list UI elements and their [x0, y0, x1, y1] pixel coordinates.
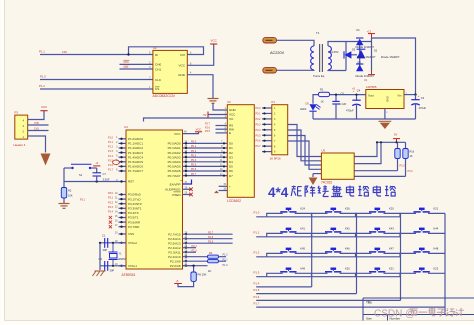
- LCD pin 15 backlight: [219, 185, 228, 187]
- MCU pin 1 P1.0/ADC0: [119, 138, 127, 140]
- svg-text:P0.1: P0.1: [191, 145, 197, 148]
- key K43 row2 col3: [356, 233, 372, 236]
- svg-text:P1.3: P1.3: [254, 270, 260, 274]
- capacitor C3 electrolytic: [415, 95, 417, 100]
- svg-text:ALE/PROG: ALE/PROG: [165, 188, 181, 192]
- MCU pin 3 P1.2/ADC2: [119, 147, 127, 149]
- svg-text:GND: GND: [178, 73, 186, 77]
- P1 resnet pin 5: [262, 129, 272, 131]
- svg-text:1K: 1K: [410, 155, 413, 158]
- wire bridge right branch: [371, 38, 373, 71]
- wire ADC CH1 stub: [120, 68, 153, 70]
- svg-text:P2.2/A10: P2.2/A10: [168, 255, 181, 259]
- svg-text:Title: Title: [366, 301, 372, 305]
- svg-text:P1.1: P1.1: [39, 49, 45, 53]
- svg-text:VCC: VCC: [211, 39, 218, 43]
- key K24 row1 col1: [267, 213, 283, 216]
- svg-text:P0.6/AD6: P0.6/AD6: [168, 169, 181, 173]
- svg-text:P2.6: P2.6: [208, 236, 214, 239]
- svg-text:R2: R2: [68, 188, 72, 192]
- svg-text:P0.4/AD4: P0.4/AD4: [168, 160, 181, 164]
- svg-text:D6: D6: [229, 169, 233, 173]
- MCU pin 4 P1.3/ADC3: [119, 152, 127, 154]
- svg-text:U3: U3: [227, 100, 231, 104]
- svg-text:XTAL1: XTAL1: [128, 264, 137, 268]
- svg-text:K26: K26: [345, 207, 350, 211]
- svg-text:P1.0: P1.0: [108, 136, 114, 139]
- keypad column wire 3: [400, 213, 402, 300]
- svg-text:RST: RST: [128, 180, 134, 184]
- svg-text:P2.5: P2.5: [208, 240, 214, 243]
- key K47 row3 col3: [356, 253, 372, 256]
- svg-text:T1: T1: [316, 31, 320, 35]
- MCU pin 16 P3.6/WR: [119, 221, 127, 223]
- wire P0.0 bus MCU to LCD: [183, 142, 228, 144]
- wire encoder out A: [354, 142, 377, 156]
- svg-text:K49: K49: [300, 266, 305, 270]
- resistor R17: [405, 142, 407, 148]
- sheet border: [4, 0, 6, 321]
- svg-text:P2.5/A13: P2.5/A13: [168, 241, 181, 245]
- wire AC neutral to transformer: [277, 69, 315, 71]
- regulator U1 LM7805 body: [366, 90, 404, 109]
- MCU pin 10 P3.0/RxD: [119, 194, 127, 196]
- svg-text:P3.2: P3.2: [108, 201, 114, 204]
- wire +5 rail from regulator: [330, 94, 366, 96]
- svg-text:P0.1/AD1: P0.1/AD1: [168, 146, 181, 150]
- svg-text:P2.3/A11: P2.3/A11: [168, 250, 180, 254]
- MCU pin 5 P1.4/ADC4: [119, 156, 127, 158]
- svg-text:E: E: [229, 131, 231, 135]
- keypad row wire P1.3: [256, 276, 400, 278]
- wire keypad bundle 2: [288, 130, 322, 161]
- LCD U3 chip body: [227, 105, 254, 198]
- svg-text:P1.2: P1.2: [254, 250, 260, 254]
- keypad column return wire P1.5: [256, 293, 356, 295]
- svg-text:P2.7/A15: P2.7/A15: [168, 232, 181, 236]
- wire P2.0 to resistor R6: [183, 266, 194, 272]
- svg-text:P3.2: P3.2: [400, 164, 406, 167]
- svg-text:D2: D2: [229, 151, 233, 155]
- 5V power symbol at LCD: [207, 112, 209, 118]
- svg-text:U5: U5: [322, 148, 326, 152]
- svg-text:1K: 1K: [208, 269, 212, 273]
- key K46 row3 col2: [312, 253, 328, 256]
- svg-text:P3.7/RD: P3.7/RD: [128, 225, 140, 229]
- svg-text:P2.6: P2.6: [205, 126, 211, 129]
- svg-text:K42: K42: [345, 227, 350, 231]
- svg-text:K21: K21: [389, 266, 394, 270]
- wire P3 pin3: [28, 124, 49, 126]
- MCU pin 12 P3.2/INT0: [119, 203, 127, 205]
- svg-text:K20: K20: [389, 207, 394, 211]
- svg-text:GND: GND: [229, 108, 237, 112]
- +5 power symbol at reset: [93, 165, 100, 167]
- svg-text:P0.6: P0.6: [191, 168, 197, 171]
- key K21 row1 col4: [400, 213, 416, 216]
- wire P0.7 bus MCU to LCD: [183, 175, 228, 177]
- wire regulator GND down: [384, 109, 386, 120]
- VCC power symbol at P3: [40, 110, 47, 112]
- wire R1 to LED: [313, 95, 319, 104]
- svg-text:P2.4/A12: P2.4/A12: [168, 246, 181, 250]
- svg-text:10K: 10K: [68, 193, 73, 197]
- svg-text:P0.5: P0.5: [256, 134, 262, 137]
- key K20 row4 col2: [312, 273, 328, 276]
- MCU pin 11 P3.1/TxD: [119, 198, 127, 200]
- svg-text:CS0: CS0: [62, 51, 67, 54]
- svg-text:P3.1: P3.1: [108, 197, 114, 200]
- wire keypad bundle 4: [288, 141, 322, 169]
- LCD pin 2 VCC wire to 5V: [208, 114, 227, 116]
- wire P3 pin2: [28, 130, 49, 132]
- svg-text:C7: C7: [103, 172, 107, 176]
- wire P0.1 bus MCU to LCD: [183, 147, 228, 149]
- svg-text:P3.5/T1: P3.5/T1: [128, 216, 139, 220]
- wire P0.5 bus MCU to LCD: [183, 165, 228, 167]
- svg-text:1K: 1K: [321, 100, 324, 104]
- P1 resnet pin 2: [262, 112, 272, 114]
- no-ERC cross at MCU left pin: [109, 216, 112, 219]
- wire DO feedback loop: [129, 47, 204, 55]
- wire encoder out B: [354, 142, 381, 163]
- wire RST to reset network: [64, 181, 119, 183]
- +12 power symbol: [368, 33, 375, 35]
- svg-text:P3.4: P3.4: [108, 211, 114, 214]
- svg-text:P0.3: P0.3: [191, 154, 197, 157]
- svg-text:Trans Eq: Trans Eq: [313, 74, 325, 78]
- svg-text:LED0: LED0: [300, 108, 307, 111]
- wire XTAL1: [100, 265, 126, 267]
- svg-text:P0.4: P0.4: [256, 129, 262, 132]
- svg-text:CH0: CH0: [34, 122, 39, 125]
- ground arrow below P3: [41, 154, 51, 166]
- svg-text:AT89S51: AT89S51: [122, 273, 136, 277]
- watermark CSDN: [374, 308, 464, 320]
- svg-text:LM7805: LM7805: [366, 85, 377, 89]
- svg-text:S1: S1: [79, 173, 83, 177]
- svg-text:30P: 30P: [103, 248, 108, 252]
- MCU pin 20 VSS: [119, 233, 127, 235]
- svg-text:K41: K41: [300, 227, 305, 231]
- LCD pin 5 RW: [216, 128, 228, 130]
- MCU U4 chip body: [126, 130, 183, 269]
- svg-text:P1.3/ADC3: P1.3/ADC3: [128, 151, 143, 155]
- svg-text:D4: D4: [229, 160, 233, 164]
- svg-text:P2.7: P2.7: [205, 123, 211, 126]
- MCU pin 18 XTAL2: [119, 242, 127, 244]
- wire bridge middle branch: [359, 42, 361, 71]
- svg-text:P3.3/INT1: P3.3/INT1: [128, 207, 142, 211]
- svg-text:P0.2: P0.2: [191, 150, 197, 153]
- svg-text:U4: U4: [124, 125, 128, 129]
- P1 resnet pin 9: [262, 151, 272, 153]
- svg-text:K48: K48: [434, 247, 439, 251]
- svg-text:VCC: VCC: [196, 127, 202, 131]
- capacitor C9: [104, 261, 106, 271]
- wire P3 pin1 to ground arrow: [28, 136, 46, 153]
- MCU pin 15 P3.5/T1: [119, 217, 127, 219]
- svg-text:CS: CS: [155, 87, 159, 91]
- wire P0.2 bus MCU to LCD: [183, 152, 228, 154]
- svg-text:PSEN: PSEN: [172, 193, 180, 197]
- svg-text:CLK: CLK: [155, 78, 162, 82]
- svg-text:P0.0: P0.0: [256, 107, 262, 110]
- encoder U5 74C922 body: [321, 153, 354, 179]
- svg-text:P1.7/ADC7: P1.7/ADC7: [128, 169, 143, 173]
- svg-text:AC15V: AC15V: [330, 50, 339, 54]
- svg-text:C1: C1: [102, 233, 106, 237]
- wire encoder out D: [354, 175, 405, 177]
- power bar below bridge: [368, 74, 375, 76]
- svg-text:R16: R16: [410, 150, 415, 153]
- LCD pin 4 RS: [216, 125, 228, 127]
- svg-text:P0.7: P0.7: [256, 145, 262, 148]
- no-ERC cross at MCU left pin: [109, 221, 112, 224]
- key K42 row2 col2: [312, 233, 328, 236]
- svg-text:P3.0: P3.0: [108, 192, 114, 195]
- svg-text:AC220V: AC220V: [270, 51, 285, 55]
- resistor R1: [319, 92, 330, 96]
- wire ADC GND down to ground: [187, 75, 213, 99]
- svg-text:CH1: CH1: [155, 67, 161, 71]
- key K26 row1 col2: [312, 213, 328, 216]
- svg-text:CH0: CH0: [155, 63, 161, 67]
- svg-text:P3.0/RxD: P3.0/RxD: [128, 193, 142, 197]
- wire transformer secondary bottom: [328, 69, 346, 72]
- power bar symbol at R6 return: [174, 283, 182, 285]
- svg-text:P0.5: P0.5: [191, 164, 197, 167]
- key K49 row4 col1: [267, 273, 283, 276]
- svg-text:P3.3: P3.3: [108, 206, 114, 209]
- svg-text:Vin: Vin: [397, 93, 402, 97]
- svg-text:P0.3/AD3: P0.3/AD3: [168, 155, 181, 159]
- wire net P1.1 to ADC DI: [40, 54, 153, 56]
- svg-text:P1.3: P1.3: [108, 150, 114, 153]
- svg-text:R1: R1: [320, 88, 324, 92]
- svg-text:P2.7: P2.7: [208, 231, 214, 234]
- svg-text:470uF: 470uF: [419, 106, 427, 110]
- wire P0.3 bus MCU to LCD: [183, 156, 228, 158]
- svg-text:VCC: VCC: [178, 64, 185, 68]
- wire R6 to supply arrow: [178, 281, 194, 286]
- key K45 row3 col1: [267, 253, 283, 256]
- LED D9: [309, 104, 316, 110]
- keypad row wire P1.0: [256, 216, 400, 218]
- wire encoder pin5 to ground arrow: [313, 173, 321, 175]
- wire keypad bundle 1: [288, 125, 322, 157]
- ADC U2 chip body: [153, 50, 187, 93]
- header P3 connector body: [15, 115, 28, 139]
- keypad column wire 2: [356, 213, 358, 293]
- svg-text:D1: D1: [229, 146, 233, 150]
- VCC power symbol above MCU: [195, 131, 202, 133]
- svg-text:P0.2/AD2: P0.2/AD2: [168, 151, 181, 155]
- svg-text:EA/VPP: EA/VPP: [170, 182, 181, 186]
- wire top rail to Vin column: [372, 38, 416, 95]
- svg-text:P3.2/INT0: P3.2/INT0: [128, 202, 142, 206]
- svg-text:D7: D7: [229, 174, 233, 178]
- svg-text:P2.4: P2.4: [192, 245, 198, 248]
- resistor network P1 body: [272, 105, 288, 155]
- svg-text:CH0: CH0: [124, 61, 130, 64]
- svg-text:CSDN @: CSDN @: [374, 309, 415, 320]
- svg-text:P3.6/WR: P3.6/WR: [128, 220, 141, 224]
- svg-text:P1.4: P1.4: [108, 155, 114, 158]
- svg-text:0.1UF: 0.1UF: [339, 102, 347, 106]
- ground symbol near LCD: [208, 98, 219, 100]
- svg-text:P1.7: P1.7: [108, 169, 114, 172]
- wire crystal caps to ground: [99, 243, 101, 266]
- no-ERC cross on PSEN: [189, 193, 193, 197]
- P1 resnet pin 7: [262, 140, 272, 142]
- wire regulator Vin: [404, 94, 416, 96]
- svg-text:4*4: 4*4: [268, 185, 289, 200]
- wire ADC VCC to VCC rail: [187, 44, 213, 65]
- svg-text:+12: +12: [367, 29, 372, 33]
- capacitor C4 electrolytic: [356, 95, 358, 101]
- svg-text:K43: K43: [389, 227, 394, 231]
- svg-text:P1.6: P1.6: [254, 295, 260, 299]
- svg-text:P2.1: P2.1: [223, 258, 229, 261]
- svg-text:VO: VO: [229, 117, 234, 121]
- wire P3 pin4 to VCC: [28, 111, 44, 120]
- svg-text:P1.7: P1.7: [254, 302, 260, 306]
- resistor R16: [397, 142, 399, 148]
- LCD pin 3 VO wire: [144, 118, 228, 122]
- title block frame: [363, 297, 474, 299]
- svg-text:P1.0: P1.0: [254, 210, 260, 214]
- ground symbol below regulator: [379, 120, 392, 122]
- svg-text:P2.0/A8: P2.0/A8: [170, 264, 181, 268]
- AC input terminal bottom: [263, 68, 277, 73]
- MCU pin 19 XTAL1: [119, 265, 127, 267]
- svg-text:D3: D3: [229, 155, 233, 159]
- svg-text:+: +: [418, 94, 420, 98]
- svg-text:470uF: 470uF: [346, 108, 354, 112]
- svg-text:DO: DO: [180, 53, 185, 57]
- resistor R4b on P2.1 wire: [208, 260, 219, 263]
- svg-text:P3: P3: [15, 110, 19, 114]
- keypad column return wire P1.4: [256, 286, 312, 288]
- svg-text:LCD1602: LCD1602: [227, 199, 241, 203]
- wire bridge middle horizontal: [346, 54, 357, 56]
- svg-text:-: -: [229, 189, 230, 193]
- svg-text:P1.6/ADC6: P1.6/ADC6: [128, 165, 143, 169]
- svg-text:CH1: CH1: [34, 128, 39, 131]
- AC input terminal top: [263, 38, 277, 43]
- key K20 row1 col3: [356, 213, 372, 216]
- svg-text:Size: Size: [366, 316, 372, 320]
- svg-text:VCC: VCC: [174, 132, 181, 136]
- wire LED to bottom rail: [312, 111, 314, 119]
- svg-text:VCC: VCC: [41, 105, 47, 109]
- wire transformer secondary top: [328, 42, 372, 47]
- wire AC live to transformer: [277, 40, 315, 46]
- switch S1: [64, 167, 73, 169]
- ground below R2: [59, 203, 70, 205]
- svg-text:R4: R4: [209, 251, 213, 255]
- svg-text:VSS: VSS: [128, 232, 134, 236]
- svg-text:P3.3: P3.3: [408, 170, 414, 173]
- no-ERC cross at MCU left pin: [109, 225, 112, 228]
- svg-text:DI: DI: [155, 53, 158, 57]
- resistor R2: [63, 182, 65, 188]
- keypad column return wire P1.7: [256, 306, 445, 308]
- wire ADC CH0 stub: [120, 63, 153, 65]
- wire net P1.2 to ADC CS: [40, 88, 153, 90]
- svg-text:3.3UF: 3.3UF: [103, 177, 110, 181]
- svg-text:K45: K45: [300, 247, 305, 251]
- resistor R4a on P2.2 wire: [208, 255, 219, 258]
- svg-text:D0: D0: [229, 142, 233, 146]
- P1 resnet pin 1: [262, 107, 272, 109]
- keypad column return wire P1.6: [256, 299, 400, 301]
- svg-text:K24: K24: [300, 207, 305, 211]
- svg-text:Diode 1N4007: Diode 1N4007: [357, 55, 376, 59]
- svg-text:CH1: CH1: [124, 66, 130, 69]
- key K22 row4 col4: [400, 273, 416, 276]
- svg-text:P0.6: P0.6: [256, 140, 262, 143]
- svg-text:P0.0/AD0: P0.0/AD0: [168, 142, 181, 146]
- svg-text:P1.2: P1.2: [108, 146, 114, 149]
- svg-text:P1.1/ADC1: P1.1/ADC1: [128, 142, 143, 146]
- svg-text:P2.3: P2.3: [192, 249, 198, 252]
- bottom power rail: [313, 118, 416, 120]
- ground below crystal caps: [95, 270, 106, 272]
- no-ERC cross on ALE: [189, 188, 193, 192]
- svg-text:Diode 1N4007: Diode 1N4007: [381, 55, 400, 59]
- svg-text:GND: GND: [386, 96, 390, 102]
- key K21 row4 col3: [356, 273, 372, 276]
- capacitor C6: [335, 95, 337, 102]
- svg-text:U2: U2: [153, 46, 157, 50]
- svg-text:1K 9P16: 1K 9P16: [270, 156, 281, 160]
- svg-text:K47: K47: [389, 247, 394, 251]
- MCU pin 2 P1.1/ADC1: [119, 142, 127, 144]
- svg-text:P0.3: P0.3: [256, 123, 262, 126]
- wire P0.4 bus MCU to LCD: [183, 161, 228, 163]
- svg-text:5V: 5V: [394, 132, 397, 136]
- wire R2 to ground: [63, 198, 65, 203]
- wire encoder out C: [354, 170, 397, 172]
- encoder top rail: [377, 141, 406, 143]
- wire reset node vertical: [63, 168, 65, 182]
- P1 resnet pin 3: [262, 118, 272, 120]
- svg-text:P2.5: P2.5: [205, 130, 211, 133]
- keypad column wire 1: [311, 213, 313, 287]
- wire net P1.0 to ADC CLK: [40, 79, 153, 81]
- svg-text:K46: K46: [345, 247, 350, 251]
- svg-text:P0.7: P0.7: [191, 173, 197, 176]
- svg-text:P1.2: P1.2: [39, 84, 45, 88]
- svg-text:K22: K22: [434, 266, 439, 270]
- svg-text:P0.1: P0.1: [256, 112, 262, 115]
- svg-text:U1: U1: [364, 78, 368, 82]
- svg-text:P0.4: P0.4: [191, 159, 197, 162]
- ERC marker red circle at P1.4: [113, 160, 120, 165]
- MCU pin 7 P1.6/ADC6: [119, 165, 127, 167]
- svg-text:ADC0832CCN: ADC0832CCN: [153, 94, 176, 98]
- svg-text:C4: C4: [357, 89, 361, 93]
- svg-text:K44: K44: [434, 227, 439, 231]
- P1 resnet pin 8: [262, 145, 272, 147]
- keypad column wire 4: [444, 213, 446, 314]
- key K48 row3 col4: [400, 253, 416, 256]
- wire keypad bundle 3: [288, 136, 322, 166]
- svg-text:P3.1/TxD: P3.1/TxD: [128, 197, 141, 201]
- svg-text:P1.0: P1.0: [40, 74, 46, 78]
